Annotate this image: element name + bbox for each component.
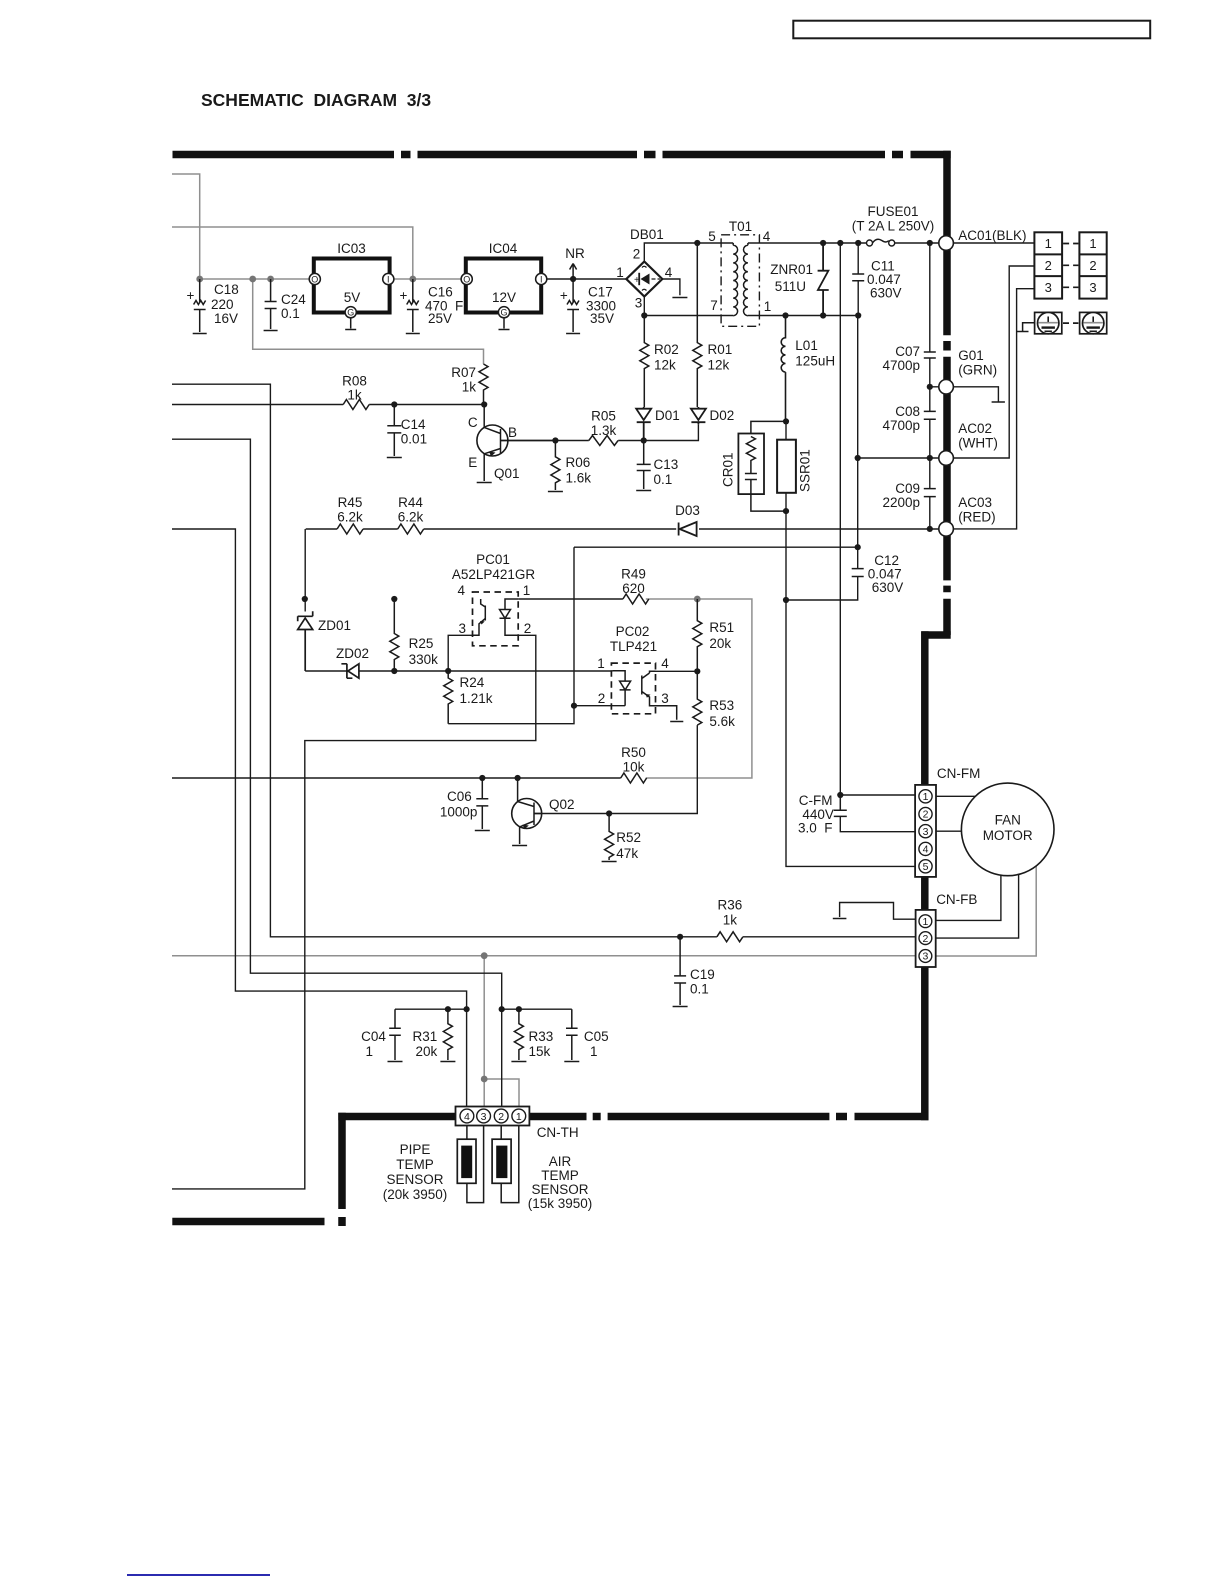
wire motor lead 3 [936, 866, 1036, 956]
svg-text:20k: 20k [709, 636, 731, 651]
wire Q02 base row [534, 725, 697, 813]
svg-text:G01: G01 [958, 348, 984, 363]
svg-text:2: 2 [922, 933, 928, 945]
svg-text:O: O [463, 274, 470, 284]
svg-text:PIPE: PIPE [400, 1142, 431, 1157]
svg-text:+: + [400, 288, 408, 303]
svg-text:C-FM: C-FM [799, 793, 833, 808]
terminal block left [1034, 232, 1062, 298]
svg-text:(GRN): (GRN) [958, 363, 997, 378]
wire motor lead 1 [936, 875, 1001, 920]
svg-text:R06: R06 [566, 455, 591, 470]
node NR arrow [570, 264, 577, 280]
svg-text:1: 1 [516, 1111, 522, 1123]
resistor R33 [511, 1009, 526, 1061]
resistor R24 [444, 671, 453, 724]
svg-text:3: 3 [922, 951, 928, 963]
resistor R25 [390, 599, 399, 671]
border: jog [922, 631, 951, 639]
regulator IC03 [309, 241, 394, 330]
svg-text:15k: 15k [529, 1044, 551, 1059]
svg-text:1: 1 [1045, 236, 1052, 251]
svg-text:Q01: Q01 [494, 466, 520, 481]
svg-text:630V: 630V [872, 580, 904, 595]
svg-text:1: 1 [1089, 236, 1096, 251]
diode D03 [679, 522, 697, 536]
border: bottom-left thick bar [172, 1218, 324, 1226]
svg-text:D01: D01 [655, 408, 680, 423]
wire C-FM bottom to pin3 [840, 816, 915, 831]
capacitor C19 [673, 937, 688, 1007]
svg-text:PC02: PC02 [616, 624, 650, 639]
svg-text:5.6k: 5.6k [709, 714, 735, 729]
wire PC02 pin2 [574, 705, 625, 707]
fan motor [961, 783, 1054, 876]
svg-text:25V: 25V [428, 311, 452, 326]
svg-text:C06: C06 [447, 789, 472, 804]
resistor R02 [640, 316, 649, 408]
svg-text:1k: 1k [723, 913, 738, 928]
connector CN-FM [915, 766, 980, 877]
wire IC03 I to IC04 O [394, 278, 462, 280]
wire R05 row Q01 base [501, 440, 644, 442]
capacitor C05 [564, 1009, 579, 1061]
wire C08 vertical [929, 387, 931, 458]
capacitor C09 [924, 489, 936, 497]
svg-text:4: 4 [923, 844, 929, 856]
svg-text:R31: R31 [413, 1029, 438, 1044]
resistor R06 [548, 441, 563, 492]
svg-text:1k: 1k [462, 380, 477, 395]
wire left loop to PC01 pin2 [172, 635, 536, 1189]
svg-text:R25: R25 [409, 636, 434, 651]
wire R45 corner down to ZD01 [304, 529, 306, 612]
svg-text:I: I [387, 274, 390, 284]
svg-text:3: 3 [481, 1111, 487, 1123]
wire C24 node down to R07 top [253, 279, 484, 364]
svg-text:12k: 12k [708, 358, 730, 373]
svg-text:2: 2 [1089, 258, 1096, 273]
svg-text:I: I [540, 274, 543, 284]
svg-text:AC03: AC03 [958, 495, 992, 510]
wire CN-FM pin1 to motor [936, 795, 975, 797]
svg-text:ZNR01: ZNR01 [770, 262, 813, 277]
svg-text:R02: R02 [654, 342, 679, 357]
svg-text:DB01: DB01 [630, 227, 664, 242]
svg-text:3: 3 [459, 621, 467, 636]
resistor R36 [717, 932, 743, 942]
wire PC01 pin1 to R49 [518, 598, 623, 600]
svg-text:1: 1 [597, 656, 605, 671]
zener ZD01 [298, 611, 313, 671]
svg-text:0.1: 0.1 [281, 306, 300, 321]
transistor Q01 [477, 405, 556, 483]
svg-text:1: 1 [590, 1044, 598, 1059]
svg-text:5: 5 [708, 229, 716, 244]
resistor R07 [479, 364, 488, 405]
svg-text:C17: C17 [588, 285, 613, 300]
resistor R08 [343, 400, 369, 410]
svg-text:330k: 330k [409, 652, 439, 667]
resistor R52 [602, 814, 617, 862]
transformer T01 [721, 235, 759, 326]
svg-text:1.21k: 1.21k [460, 691, 493, 706]
svg-text:B: B [508, 425, 517, 440]
wire C11/neutral vertical [857, 243, 860, 547]
wire C09 vertical [929, 458, 931, 529]
connector CN-FB [916, 892, 978, 967]
svg-text:FAN: FAN [995, 813, 1021, 828]
zener ZD02 [341, 664, 359, 678]
svg-text:35V: 35V [590, 311, 614, 326]
svg-text:2: 2 [923, 809, 929, 821]
svg-text:4: 4 [458, 583, 466, 598]
svg-text:D02: D02 [710, 408, 735, 423]
svg-text:IC04: IC04 [489, 241, 518, 256]
black junction dots [302, 240, 933, 1012]
svg-text:SCHEMATIC DIAGRAM 3/3: SCHEMATIC DIAGRAM 3/3 [201, 90, 431, 110]
svg-text:CN-FM: CN-FM [937, 766, 981, 781]
svg-text:R50: R50 [621, 745, 646, 760]
svg-text:R05: R05 [591, 409, 616, 424]
capacitor C-FM [834, 795, 847, 816]
svg-text:C09: C09 [895, 481, 920, 496]
svg-text:10k: 10k [623, 760, 645, 775]
svg-text:1: 1 [922, 916, 928, 928]
svg-text:G: G [347, 308, 354, 318]
svg-text:A52LP421GR: A52LP421GR [452, 567, 536, 582]
fuse FUSE01 [867, 239, 895, 246]
air temp sensor [492, 1126, 519, 1203]
terminal AC03 [939, 522, 954, 537]
svg-text:R24: R24 [460, 675, 485, 690]
svg-text:2: 2 [633, 247, 641, 262]
wire D01 D02 C13 node [644, 424, 699, 440]
svg-text:1: 1 [616, 265, 624, 280]
svg-text:(15k 3950): (15k 3950) [528, 1196, 593, 1211]
border: right thick bar upper [943, 151, 951, 635]
optocoupler PC02 [597, 624, 697, 722]
capacitor C12 [852, 569, 864, 577]
wire CN-FB pin1 ground stub [833, 903, 916, 920]
svg-text:FUSE01: FUSE01 [867, 204, 918, 219]
svg-text:R51: R51 [709, 620, 734, 635]
svg-text:SSR01: SSR01 [798, 449, 813, 492]
svg-text:C24: C24 [281, 292, 306, 307]
svg-text:2200p: 2200p [882, 495, 920, 510]
wire R50 line [172, 777, 621, 779]
svg-text:CR01: CR01 [721, 452, 736, 487]
svg-text:+: + [187, 288, 195, 303]
capacitor C24 [264, 279, 278, 331]
svg-text:TLP421: TLP421 [610, 639, 657, 654]
wire C12 tee [574, 547, 858, 600]
svg-text:3.0 F: 3.0 F [798, 821, 833, 836]
wire bus IC04 I to DB01 pin1 [547, 278, 627, 280]
capacitor C13 [636, 441, 651, 491]
svg-text:1: 1 [365, 1044, 373, 1059]
svg-text:1.6k: 1.6k [566, 471, 592, 486]
svg-text:0.1: 0.1 [690, 982, 709, 997]
svg-text:O: O [311, 274, 318, 284]
svg-text:CN-TH: CN-TH [537, 1125, 579, 1140]
svg-text:2: 2 [498, 1111, 504, 1123]
wire bus C18 to IC03 O [200, 278, 310, 280]
terminal AC01 [939, 236, 954, 251]
earth stub left of earth terminal [1017, 323, 1035, 332]
capacitor C04 [388, 1009, 403, 1061]
svg-text:1.3k: 1.3k [591, 423, 617, 438]
border: right thick bar lower [921, 631, 929, 1120]
svg-text:0.1: 0.1 [654, 472, 673, 487]
svg-text:630V: 630V [870, 286, 902, 301]
svg-text:(WHT): (WHT) [958, 436, 998, 451]
svg-text:4700p: 4700p [882, 358, 920, 373]
wire CN-FB pin3 line [172, 955, 916, 957]
svg-text:4: 4 [464, 1111, 470, 1123]
diode D01 [636, 407, 651, 441]
optocoupler PC01 [448, 552, 535, 671]
svg-text:CN-FB: CN-FB [936, 892, 977, 907]
terminal block right [1079, 232, 1106, 298]
svg-text:6.2k: 6.2k [337, 510, 363, 525]
wire G01 to earth stub [930, 387, 1005, 402]
wire PC02 drive vertical [448, 547, 574, 724]
border: bottom-left thick vertical [338, 1113, 346, 1226]
svg-text:3: 3 [635, 296, 643, 311]
wire left to R33 node / CN-TH pin2 [172, 439, 502, 1106]
svg-text:3: 3 [923, 826, 929, 838]
svg-text:R33: R33 [529, 1029, 554, 1044]
resistor R31 [440, 1009, 455, 1061]
wire AC03 row D03 to terminal [424, 289, 1035, 529]
svg-text:NR: NR [565, 246, 585, 261]
svg-text:+: + [634, 275, 640, 286]
svg-text:TEMP: TEMP [396, 1157, 434, 1172]
inductor L01 [781, 316, 785, 422]
svg-text:5: 5 [923, 861, 929, 873]
svg-text:R01: R01 [708, 342, 733, 357]
svg-text:3: 3 [1045, 280, 1052, 295]
svg-text:IC03: IC03 [337, 241, 366, 256]
svg-text:PC01: PC01 [476, 552, 510, 567]
border: top thick bar [173, 151, 951, 159]
capacitor C17 electrolytic [566, 279, 580, 334]
svg-text:R53: R53 [709, 698, 734, 713]
wire ZD rail [305, 670, 612, 672]
wire C-FM vertical from AC line [839, 243, 841, 795]
svg-text:220: 220 [211, 297, 234, 312]
capacitor C08 [924, 411, 936, 419]
wire left feed to C16 node [172, 227, 413, 279]
svg-text:ZD02: ZD02 [336, 646, 369, 661]
capacitor C16 electrolytic [406, 279, 420, 334]
svg-text:D03: D03 [675, 503, 700, 518]
svg-text:3: 3 [661, 691, 669, 706]
wire R49 right to R50 right loop [646, 599, 752, 778]
wire C07 vertical [929, 243, 931, 387]
svg-text:4700p: 4700p [882, 418, 920, 433]
svg-text:R49: R49 [621, 567, 646, 582]
svg-text:C13: C13 [654, 457, 679, 472]
svg-text:2: 2 [1045, 258, 1052, 273]
svg-text:SENSOR: SENSOR [386, 1172, 443, 1187]
capacitor C06 [475, 778, 490, 831]
wire T01 pin4 to fuse and AC01 [748, 242, 939, 244]
resistor R01 [693, 243, 702, 407]
gray junction dots [196, 276, 700, 1083]
resistor R49 [623, 594, 649, 604]
terminal AC02 [939, 451, 954, 466]
svg-text:AC02: AC02 [958, 421, 992, 436]
svg-text:R07: R07 [451, 365, 476, 380]
svg-text:G: G [500, 308, 507, 318]
svg-text:C: C [468, 415, 478, 430]
varistor ZNR01 [818, 243, 829, 316]
snubber CR01 [738, 421, 786, 511]
svg-text:MOTOR: MOTOR [983, 828, 1033, 843]
wire left to R36 / CN-FB pin2 [172, 384, 916, 937]
svg-text:ZD01: ZD01 [318, 618, 351, 633]
svg-text:C16: C16 [428, 285, 453, 300]
svg-text:TEMP: TEMP [541, 1168, 579, 1183]
svg-text:AC01(BLK): AC01(BLK) [958, 228, 1026, 243]
svg-text:Q02: Q02 [549, 797, 575, 812]
wire SSR chain vertical [786, 421, 915, 866]
resistor R50 [621, 773, 647, 783]
svg-text:C04: C04 [361, 1029, 386, 1044]
capacitor C11 [852, 274, 864, 281]
svg-text:C07: C07 [895, 344, 920, 359]
svg-text:125uH: 125uH [795, 354, 835, 369]
terminal G01 [939, 380, 954, 395]
svg-text:C18: C18 [214, 282, 239, 297]
svg-text:4: 4 [763, 229, 771, 244]
svg-text:20k: 20k [416, 1044, 438, 1059]
capacitor C07 [924, 352, 936, 358]
capacitor C14 [387, 405, 402, 458]
solid state relay SSR01 [777, 440, 796, 493]
svg-text:L01: L01 [795, 338, 818, 353]
wire left feed to C18 node [172, 174, 200, 279]
wire DB01 pin4 stub [662, 279, 688, 298]
svg-text:(T 2A L 250V): (T 2A L 250V) [852, 219, 935, 234]
wire sensor common to CN-TH pin3 [483, 956, 485, 1107]
wire CN-FM pin1 [840, 794, 915, 796]
resistor R51 [693, 599, 702, 671]
svg-text:12V: 12V [492, 290, 516, 305]
svg-text:R08: R08 [342, 374, 367, 389]
connector CN-TH [456, 1107, 579, 1141]
border: bottom thick bar [338, 1113, 928, 1121]
svg-text:4: 4 [661, 656, 669, 671]
svg-text:C19: C19 [690, 967, 715, 982]
wire motor lead 2 [936, 875, 1019, 939]
wire AC01 to terminal block [953, 242, 1034, 244]
svg-text:511U: 511U [775, 279, 806, 294]
wire AC02 row [858, 266, 1035, 458]
svg-text:C05: C05 [584, 1029, 609, 1044]
svg-text:3: 3 [1089, 280, 1096, 295]
svg-text:(RED): (RED) [958, 510, 996, 525]
capacitor C18 electrolytic [193, 279, 207, 334]
svg-text:4: 4 [665, 265, 673, 280]
svg-text:2: 2 [524, 621, 532, 636]
svg-text:(20k 3950): (20k 3950) [383, 1187, 448, 1202]
svg-text:1: 1 [764, 299, 772, 314]
header box top right [793, 21, 1150, 39]
svg-text:47k: 47k [616, 846, 638, 861]
svg-text:C14: C14 [401, 417, 426, 432]
svg-text:T01: T01 [729, 219, 752, 234]
svg-text:R45: R45 [338, 495, 363, 510]
sensor divider rail left [395, 1008, 467, 1010]
svg-text:6.2k: 6.2k [398, 510, 424, 525]
resistor R05 [589, 436, 618, 446]
svg-text:620: 620 [622, 581, 645, 596]
svg-text:SENSOR: SENSOR [531, 1182, 588, 1197]
transistor Q02 [512, 778, 542, 846]
svg-text:+: + [560, 288, 568, 303]
svg-text:7: 7 [710, 298, 718, 313]
svg-text:R52: R52 [616, 830, 641, 845]
resistor R53 [693, 671, 702, 725]
svg-text:2: 2 [598, 691, 606, 706]
svg-text:0.01: 0.01 [401, 432, 427, 447]
dashed link between earth terminals [1063, 322, 1078, 324]
svg-text:12k: 12k [654, 358, 676, 373]
svg-text:E: E [468, 455, 477, 470]
svg-text:1: 1 [523, 583, 531, 598]
svg-text:1: 1 [923, 791, 929, 803]
wire T01 pin1 bottom rail [748, 315, 858, 317]
wire R08 line [172, 404, 484, 406]
wire R45 R44 row [306, 528, 398, 530]
resistor R44 [398, 524, 424, 534]
svg-text:R36: R36 [718, 898, 743, 913]
svg-text:C08: C08 [895, 404, 920, 419]
svg-text:1k: 1k [347, 388, 362, 403]
wire left to R31 node / CN-TH pin4 [172, 529, 467, 1107]
svg-text:1000p: 1000p [440, 805, 478, 820]
wire sensor common branch to CN-TH pin1 [484, 1079, 519, 1107]
sensor divider rail right [502, 1008, 572, 1010]
dashed links between blocks [1063, 244, 1078, 288]
svg-text:AIR: AIR [549, 1154, 572, 1169]
svg-text:R44: R44 [398, 495, 423, 510]
pipe temp sensor [457, 1126, 483, 1203]
regulator IC04 [461, 241, 547, 330]
resistor R45 [337, 524, 363, 534]
diode D02 [691, 407, 706, 424]
wire DB01 pin3 to T01 pin7 [644, 297, 733, 316]
bridge rectifier DB01 [616, 227, 673, 311]
earth terminal left [1035, 312, 1062, 333]
wire CN-FM pin3 to motor [936, 830, 961, 832]
svg-text:16V: 16V [214, 311, 238, 326]
blue footer line [127, 1574, 270, 1576]
earth terminal right [1080, 312, 1107, 333]
svg-text:5V: 5V [344, 290, 361, 305]
wire DB01 pin2 to T01 pin5 [644, 243, 733, 262]
